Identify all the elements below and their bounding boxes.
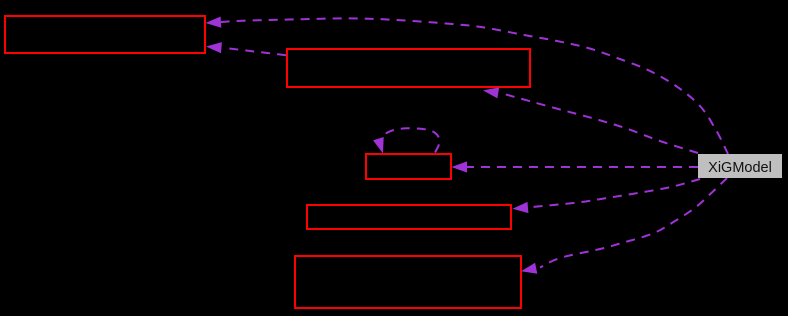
class box 1 (top-left) (5, 16, 205, 53)
svg-text:XiGModel: XiGModel (708, 160, 772, 176)
edge XiGModel->box3 (452, 161, 699, 172)
edge XiGModel->box5 (521, 178, 727, 274)
class box 2 (287, 49, 530, 87)
class box 4 (307, 205, 511, 229)
edge XiGModel->box2 (483, 87, 698, 153)
class box 5 (bottom) (295, 256, 521, 308)
node XiGModel (current class) (698, 154, 782, 178)
edge XiGModel->box1 (long top curve) (206, 17, 729, 155)
edge XiGModel->box4 (513, 179, 701, 213)
self-loop on box3 (373, 128, 439, 153)
edge box2->box1 (206, 42, 286, 55)
class box 3 (self-loop) (366, 154, 451, 179)
